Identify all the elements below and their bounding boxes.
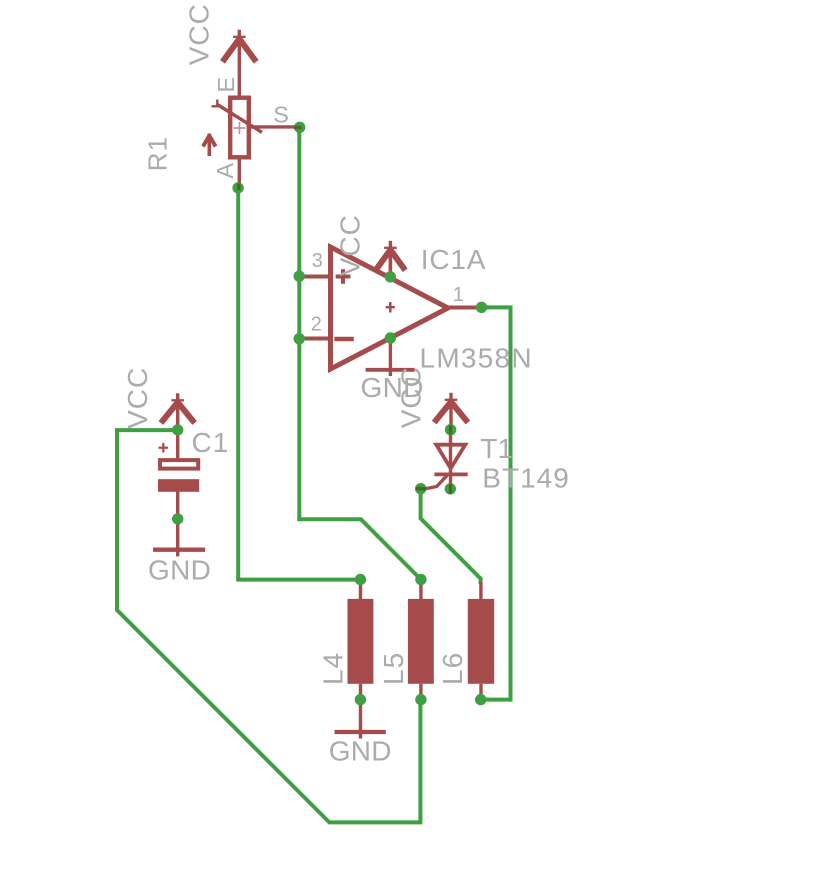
ground symbol at IC1A [366,368,415,372]
svg-text:GND: GND [148,555,211,586]
svg-text:1: 1 [453,284,464,306]
wire from op-amp output 1 right, down, left to L6 bottom [481,307,511,699]
junction at T1 cathode [445,483,456,494]
supply symbol VCC at C1 [161,393,195,430]
junction at L5 bottom [415,694,426,705]
svg-text:2: 2 [311,314,322,336]
wire from R1 pin A down then right to L4 top [238,188,360,580]
svg-text:T1: T1 [480,433,513,464]
op-amp IC1A [299,247,482,376]
wire from T1 gate down and diagonal to L6 top [421,489,481,584]
junction at C1 bottom [172,513,183,524]
junction at IC1A pin 2 [294,333,305,344]
junction at L4 top [355,574,366,585]
svg-text:GND: GND [329,735,392,766]
svg-text:A: A [212,163,238,179]
svg-text:R1: R1 [143,136,173,171]
svg-text:L6: L6 [437,652,468,685]
junction at IC1A V- [385,332,396,343]
wire overlap shade at T1 cathode junction [449,484,452,494]
svg-text:VCC: VCC [335,214,366,276]
svg-text:LM358N: LM358N [420,343,533,374]
junction at L6 bottom [475,694,486,705]
junction at IC1A pin 3 [294,271,305,282]
wire overlap shade at T1 gate junction [416,487,426,491]
svg-text:L5: L5 [378,652,409,685]
inductor L5 [408,580,434,701]
supply symbol VCC at IC1A [376,241,406,277]
R1 origin cross [234,122,246,134]
junction at R1 wiper [294,122,305,133]
capacitor C1 [158,430,199,548]
junction below R1 [232,182,243,193]
wire net N$1 from R1 wiper S down to op-amp inputs then to L5 top [299,127,421,579]
wire VCC net: C1 top left, down, diagonal, right, up to L5 bottom [117,430,420,822]
svg-text:VCC: VCC [184,3,215,65]
ground symbol at C1 [153,548,205,556]
potentiometer R1 [203,98,297,188]
supply symbol VCC at T1 [434,393,468,431]
svg-text:3: 3 [312,250,323,272]
junction at L5 top [415,574,426,585]
wire overlap shade at T1 anode junction [449,425,452,435]
inductor L4 [348,580,374,700]
ground symbol at L4 [335,700,386,739]
svg-text:BT149: BT149 [482,463,570,494]
thyristor T1 [424,430,468,489]
junction at L4 bottom [355,694,366,705]
supply symbol VCC at R1 [223,30,257,96]
svg-text:E: E [213,77,239,93]
svg-text:VCC: VCC [122,367,153,429]
svg-text:IC1A: IC1A [421,244,486,275]
wire overlap shade at S junction [294,126,302,129]
junction at T1 anode [445,424,456,435]
svg-text:C1: C1 [192,427,230,458]
junction at T1 gate [415,483,426,494]
svg-text:L4: L4 [317,652,348,685]
wire overlap shade at R1 A junction [237,184,240,191]
junction at C1 top [172,424,183,435]
junction at IC1A output [476,302,487,313]
inductor L6 [468,582,494,700]
svg-text:S: S [273,101,289,127]
junction at IC1A V+ [385,271,396,282]
svg-text:VCC: VCC [396,366,427,428]
